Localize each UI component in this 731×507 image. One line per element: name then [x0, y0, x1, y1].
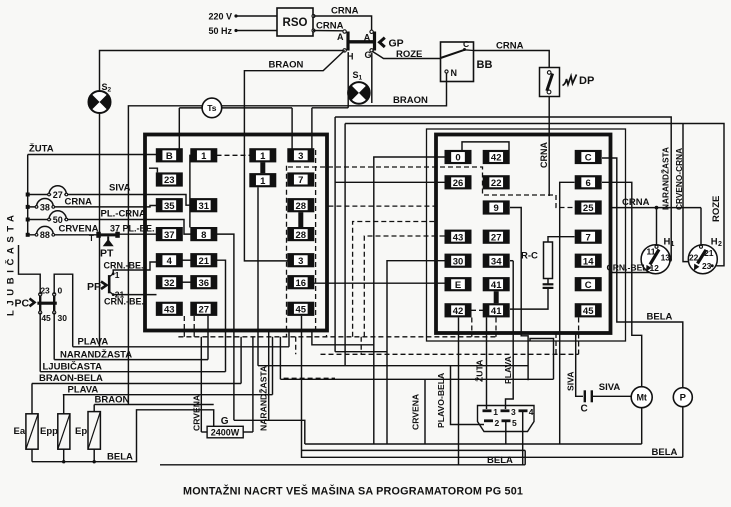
- svg-text:C: C: [463, 39, 469, 49]
- svg-text:ŽUTA: ŽUTA: [29, 143, 54, 155]
- svg-text:7: 7: [586, 232, 591, 243]
- svg-text:CRVENO-CRNA: CRVENO-CRNA: [674, 148, 684, 210]
- svg-text:30: 30: [453, 256, 464, 267]
- svg-text:3: 3: [298, 151, 303, 162]
- svg-text:ŽUTA: ŽUTA: [474, 360, 485, 382]
- svg-text:G: G: [221, 416, 229, 427]
- svg-text:BRAON: BRAON: [95, 394, 130, 405]
- svg-text:45: 45: [41, 313, 51, 323]
- svg-text:3: 3: [511, 407, 516, 417]
- svg-text:37 PL.-BE.: 37 PL.-BE.: [110, 223, 155, 233]
- svg-text:4: 4: [167, 256, 173, 267]
- svg-text:PT: PT: [100, 248, 114, 260]
- svg-text:2400W: 2400W: [211, 427, 240, 437]
- svg-text:1: 1: [493, 407, 498, 417]
- svg-text:43: 43: [453, 232, 464, 243]
- svg-text:BELA: BELA: [652, 447, 678, 458]
- svg-text:5: 5: [512, 418, 517, 428]
- svg-text:37: 37: [164, 230, 175, 241]
- svg-text:SIVA: SIVA: [109, 183, 131, 194]
- svg-text:4: 4: [529, 407, 534, 417]
- svg-text:12: 12: [649, 263, 659, 273]
- svg-text:ROZE: ROZE: [396, 49, 422, 60]
- svg-text:0: 0: [58, 285, 63, 295]
- svg-text:13: 13: [661, 253, 671, 263]
- svg-text:36: 36: [199, 278, 210, 289]
- svg-text:BRAON: BRAON: [269, 60, 304, 71]
- svg-text:E: E: [455, 280, 461, 291]
- svg-text:50 Hz: 50 Hz: [208, 26, 232, 36]
- svg-text:N: N: [451, 68, 458, 78]
- svg-text:CRNA: CRNA: [316, 21, 344, 32]
- svg-text:G: G: [365, 50, 372, 60]
- svg-text:28: 28: [296, 201, 307, 212]
- svg-text:22: 22: [491, 178, 502, 189]
- svg-text:MONTAŽNI NACRT VEŠ MAŠINA SA P: MONTAŽNI NACRT VEŠ MAŠINA SA PROGRAMATOR…: [183, 485, 523, 498]
- svg-text:38: 38: [40, 202, 50, 212]
- svg-text:0: 0: [455, 153, 460, 164]
- svg-text:PP: PP: [87, 281, 101, 293]
- svg-text:PLAVA: PLAVA: [78, 337, 109, 348]
- svg-text:1: 1: [115, 270, 120, 280]
- svg-text:CRNA: CRNA: [65, 197, 93, 208]
- svg-text:ROZE: ROZE: [711, 196, 722, 222]
- svg-text:88: 88: [40, 230, 50, 240]
- svg-text:1: 1: [201, 151, 207, 162]
- svg-text:A: A: [364, 33, 371, 43]
- svg-text:BELA: BELA: [487, 455, 513, 466]
- svg-text:H: H: [711, 237, 718, 248]
- svg-text:PL.-CRNA: PL.-CRNA: [101, 209, 147, 220]
- svg-text:1: 1: [671, 241, 675, 248]
- svg-text:27: 27: [491, 232, 502, 243]
- svg-text:28: 28: [296, 230, 307, 241]
- svg-text:CRN.-BE.: CRN.-BE.: [104, 297, 144, 307]
- svg-text:C: C: [581, 404, 588, 415]
- svg-text:14: 14: [583, 256, 594, 267]
- svg-text:30: 30: [58, 313, 68, 323]
- svg-text:9: 9: [494, 203, 499, 214]
- svg-text:34: 34: [491, 256, 502, 267]
- svg-text:R-C: R-C: [521, 251, 538, 262]
- svg-text:23: 23: [40, 285, 50, 295]
- svg-text:Ep: Ep: [75, 426, 87, 437]
- svg-text:CRN.-BE.: CRN.-BE.: [104, 261, 144, 271]
- svg-text:PC: PC: [15, 298, 30, 310]
- svg-text:22: 22: [689, 253, 699, 263]
- svg-text:LJUBIČASTA: LJUBIČASTA: [43, 360, 103, 372]
- svg-text:BELA: BELA: [107, 452, 133, 463]
- svg-text:CRVENA: CRVENA: [411, 394, 421, 430]
- svg-text:8: 8: [201, 230, 206, 241]
- svg-text:7: 7: [298, 175, 303, 186]
- svg-text:1: 1: [260, 176, 266, 187]
- svg-text:2: 2: [718, 241, 722, 248]
- svg-text:Ts: Ts: [207, 103, 217, 113]
- svg-text:BELA: BELA: [647, 312, 673, 323]
- svg-text:A: A: [337, 32, 344, 42]
- svg-text:H: H: [664, 236, 671, 247]
- svg-text:PLAVA: PLAVA: [503, 356, 513, 384]
- svg-text:NARANDŽASTA: NARANDŽASTA: [660, 147, 671, 210]
- svg-text:DP: DP: [579, 75, 594, 87]
- svg-text:16: 16: [296, 278, 307, 289]
- svg-text:45: 45: [583, 306, 594, 317]
- svg-text:2: 2: [495, 418, 500, 428]
- svg-text:SIVA: SIVA: [599, 382, 621, 393]
- svg-text:3: 3: [298, 256, 303, 267]
- svg-text:27: 27: [53, 190, 63, 200]
- svg-text:PLAVO-BELA: PLAVO-BELA: [436, 373, 446, 428]
- svg-text:43: 43: [164, 305, 175, 316]
- svg-text:GP: GP: [389, 38, 404, 50]
- svg-text:27: 27: [199, 305, 210, 316]
- svg-text:B: B: [166, 151, 173, 162]
- svg-text:CRVENA: CRVENA: [59, 224, 99, 235]
- svg-text:21: 21: [199, 256, 210, 267]
- svg-text:31: 31: [199, 201, 210, 212]
- svg-text:35: 35: [164, 201, 175, 212]
- svg-text:SIVA: SIVA: [566, 372, 576, 391]
- svg-text:45: 45: [296, 305, 307, 316]
- svg-text:Mt: Mt: [636, 392, 647, 402]
- svg-text:42: 42: [491, 153, 502, 164]
- svg-text:41: 41: [491, 280, 502, 291]
- svg-text:220 V: 220 V: [208, 12, 232, 22]
- svg-text:26: 26: [453, 178, 464, 189]
- svg-text:41: 41: [491, 306, 502, 317]
- svg-text:21: 21: [704, 248, 714, 258]
- svg-text:23: 23: [164, 175, 175, 186]
- svg-text:RSO: RSO: [283, 17, 308, 29]
- svg-text:42: 42: [453, 306, 464, 317]
- svg-text:NARANDŽASTA: NARANDŽASTA: [60, 348, 132, 360]
- svg-text:CRNA: CRNA: [496, 41, 524, 52]
- svg-text:NARANDŽASTA: NARANDŽASTA: [258, 366, 269, 431]
- svg-text:Epp: Epp: [40, 426, 58, 437]
- svg-text:2: 2: [108, 87, 112, 94]
- svg-text:BRAON-BELA: BRAON-BELA: [39, 373, 103, 384]
- svg-text:CRVENA: CRVENA: [192, 395, 202, 431]
- svg-text:32: 32: [164, 278, 175, 289]
- svg-text:CRN.-BEL: CRN.-BEL: [607, 263, 648, 273]
- svg-text:C: C: [585, 153, 592, 164]
- svg-text:CRNA: CRNA: [331, 6, 359, 17]
- svg-text:T: T: [89, 234, 94, 243]
- svg-text:25: 25: [583, 203, 594, 214]
- svg-text:11: 11: [647, 246, 656, 256]
- svg-text:1: 1: [359, 75, 363, 82]
- svg-text:Ea: Ea: [14, 426, 26, 437]
- svg-text:CRNA: CRNA: [539, 142, 549, 168]
- svg-text:C: C: [585, 280, 592, 291]
- svg-text:1: 1: [260, 151, 266, 162]
- svg-text:BRAON: BRAON: [393, 95, 428, 106]
- svg-text:BB: BB: [477, 59, 493, 71]
- svg-text:6: 6: [586, 178, 591, 189]
- svg-text:P: P: [680, 392, 687, 403]
- svg-text:23: 23: [702, 261, 712, 271]
